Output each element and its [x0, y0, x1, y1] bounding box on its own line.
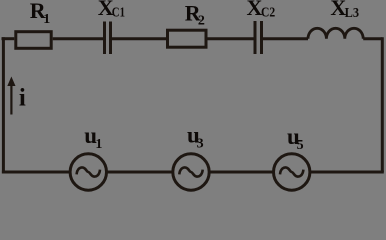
svg-text:1: 1 [95, 137, 102, 152]
wire R2 to C2 [208, 37, 254, 40]
wire L3 to top-right corner [363, 37, 382, 40]
wire C2 to L3 [263, 37, 308, 40]
capacitor C2 [255, 21, 262, 54]
wire left vertical [2, 37, 5, 173]
sine in u1 [77, 167, 100, 176]
resistor R1 [16, 32, 51, 49]
wire R1 to C1 [53, 37, 103, 40]
wire C1 to R2 [112, 37, 166, 40]
sine in u5 [280, 167, 303, 176]
svg-text:i: i [19, 85, 26, 112]
wire right vertical [381, 37, 384, 172]
source u3 circle [173, 154, 209, 190]
resistor R2 [168, 30, 207, 47]
inductor L3 [308, 28, 363, 38]
wire u1 to bottom-left corner [2, 171, 70, 174]
svg-text:C1: C1 [112, 6, 125, 21]
svg-text:L3: L3 [345, 6, 359, 21]
source u1 circle [70, 154, 106, 190]
source u5 circle [274, 154, 310, 190]
wire bottom right segment [310, 171, 384, 174]
current arrow i [10, 85, 12, 115]
wire u5 to u3 [209, 171, 273, 174]
capacitor C1 [105, 22, 111, 55]
wire u3 to u1 [107, 171, 173, 174]
sine in u3 [179, 167, 202, 176]
svg-text:3: 3 [197, 137, 204, 152]
svg-text:C2: C2 [261, 6, 275, 21]
svg-text:5: 5 [297, 138, 304, 153]
svg-text:1: 1 [43, 12, 50, 27]
svg-text:2: 2 [198, 14, 205, 29]
wire top-left segment [2, 37, 15, 40]
